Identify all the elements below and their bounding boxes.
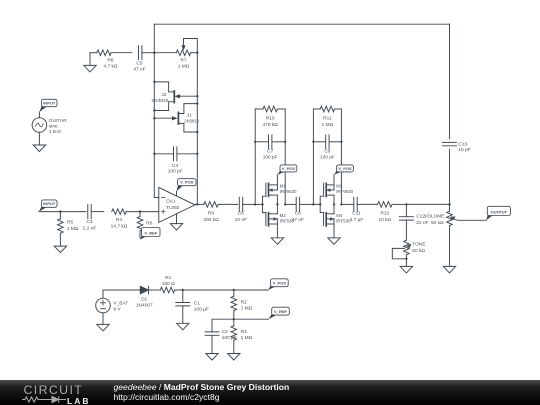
svg-text:100 Ω: 100 Ω: [162, 281, 175, 287]
resistor R10: [254, 109, 256, 204]
svg-text:TONE: TONE: [412, 242, 425, 248]
resistor R2: [233, 290, 235, 296]
svg-text:R1: R1: [165, 275, 171, 281]
svg-text:V_POS: V_POS: [282, 166, 296, 171]
svg-text:4.7 kΩ: 4.7 kΩ: [104, 63, 118, 69]
capacitor C3: [88, 205, 91, 219]
wire op-amp V+ stub: [176, 191, 178, 196]
svg-text:C8: C8: [295, 211, 301, 217]
svg-text:D1: D1: [141, 296, 147, 302]
capacitor C7: [255, 141, 268, 143]
svg-text:4.7 µF: 4.7 µF: [350, 217, 364, 223]
wire: [90, 52, 97, 54]
svg-text:C9: C9: [324, 148, 330, 154]
resistor R11: [312, 109, 314, 204]
flag INPUT (source): [39, 104, 47, 112]
footer bar: [0, 380, 540, 405]
svg-text:M1: M1: [280, 184, 287, 189]
svg-text:100 pF: 100 pF: [320, 155, 335, 161]
capacitor C8: [296, 197, 299, 211]
op-amp OA1 TL082: [159, 187, 195, 222]
svg-text:IRF9530: IRF9530: [336, 189, 353, 194]
capacitor C5: [139, 46, 142, 60]
capacitor C11: [354, 197, 357, 211]
transistor J2 2N3819: [154, 82, 173, 92]
svg-text:sine: sine: [49, 123, 58, 129]
svg-text:R10: R10: [266, 116, 275, 122]
svg-text:14.7 kΩ: 14.7 kΩ: [111, 223, 128, 229]
svg-text:TL082: TL082: [166, 205, 179, 210]
diode D1 1N4007: [140, 286, 148, 294]
transistor M1 (PMOS): [265, 183, 267, 196]
wire to R12: [357, 203, 377, 205]
transistor M4 (NMOS): [323, 213, 325, 226]
ground (R5): [54, 246, 66, 253]
wire left vertical: [153, 24, 155, 197]
source V_BAT: [96, 298, 111, 313]
node J2 drain junction: [153, 81, 155, 83]
node J1 source junction: [196, 131, 198, 133]
transistor M2 (NMOS): [265, 213, 267, 226]
svg-text:C2: C2: [222, 329, 228, 335]
wire gate bus: [255, 203, 262, 205]
svg-text:R12: R12: [380, 210, 389, 216]
wire right vertical: [196, 53, 198, 205]
capacitor C2: [212, 319, 234, 332]
capacitor C6: [239, 197, 242, 211]
svg-text:R2: R2: [241, 300, 247, 306]
capacitor C12: [405, 204, 407, 216]
ground (stage): [333, 224, 335, 238]
wire inverting input: [154, 197, 159, 199]
flag V_POS (supply): [268, 284, 277, 290]
capacitor C13: [443, 142, 457, 145]
resistor R5: [59, 212, 61, 219]
svg-text:2N3819: 2N3819: [151, 98, 168, 104]
wire stage output: [285, 203, 296, 205]
svg-text:OUTPUT: OUTPUT: [491, 209, 508, 214]
source V1 GUITAR: [38, 112, 40, 118]
node R6 junction: [139, 210, 141, 212]
resistor R9: [204, 202, 218, 208]
node junction C5/R7: [153, 52, 155, 54]
wire feedback right vertical: [340, 109, 342, 204]
svg-text:1 MΩ: 1 MΩ: [241, 335, 253, 341]
node J2 source junction: [153, 109, 155, 111]
svg-text:100 µF: 100 µF: [194, 307, 209, 313]
svg-text:V_REF: V_REF: [144, 230, 157, 235]
svg-text:100 pF: 100 pF: [263, 155, 278, 161]
capacitor C4: [154, 153, 173, 155]
node J1 gate junction: [153, 117, 155, 119]
svg-text:C13: C13: [458, 141, 467, 147]
wire feedback right vertical: [284, 109, 286, 204]
wire right feedback vertical: [449, 24, 451, 139]
svg-text:INPUT: INPUT: [43, 101, 56, 106]
node J1 drain junction: [196, 102, 198, 104]
resistor R1: [160, 287, 174, 293]
svg-text:47 nF: 47 nF: [292, 217, 304, 223]
svg-text:R6: R6: [146, 220, 152, 226]
node C4 right: [196, 153, 198, 155]
capacitor C9: [313, 141, 325, 143]
transistor M3 (PMOS): [323, 183, 325, 196]
svg-text:1 MΩ: 1 MΩ: [322, 122, 334, 128]
svg-text:V_BAT: V_BAT: [113, 300, 128, 306]
node R2 junction: [233, 289, 235, 291]
svg-text:C6: C6: [238, 211, 244, 217]
svg-text:V_POS: V_POS: [180, 180, 194, 185]
svg-text:R11: R11: [323, 116, 332, 122]
resistor R8: [97, 50, 111, 56]
wire: [39, 211, 61, 213]
ground (op-amp V-): [176, 214, 178, 224]
resistor R3: [233, 319, 235, 326]
node C1 junction: [182, 289, 184, 291]
flag V_POS (op-amp): [177, 183, 184, 191]
node feedback right: [340, 141, 342, 143]
svg-text:C7: C7: [267, 148, 273, 154]
flag V_REF (supply): [269, 312, 278, 319]
svg-text:R7: R7: [180, 58, 186, 64]
ground (tone): [400, 266, 412, 273]
ground (input bias): [89, 53, 91, 66]
svg-text:R8: R8: [107, 58, 113, 64]
flag V_REF (R6): [140, 234, 148, 240]
svg-text:M4: M4: [336, 213, 343, 218]
ground (C2): [206, 354, 218, 361]
node feedback left: [312, 141, 314, 143]
svg-text:2N3819: 2N3819: [184, 118, 199, 123]
node junction R7 right: [196, 52, 198, 54]
svg-text:22 nF: 22 nF: [416, 220, 428, 226]
ground (C1): [177, 323, 189, 330]
svg-text:15 pF: 15 pF: [458, 147, 470, 153]
potentiometer TONE: [404, 240, 410, 254]
svg-text:10 nF: 10 nF: [235, 217, 247, 223]
flag INPUT (amp input): [39, 205, 48, 212]
node stage input junction: [312, 203, 314, 205]
flag V_POS (stage M3): [334, 169, 343, 175]
potentiometer VOLUME: [449, 204, 451, 211]
node drain-feedback junction: [284, 203, 286, 205]
svg-text:M3: M3: [336, 184, 343, 189]
svg-text:C3: C3: [86, 219, 92, 225]
svg-text:1 MΩ: 1 MΩ: [67, 226, 79, 232]
node C4 left: [153, 153, 155, 155]
node V_REF junction: [233, 318, 235, 320]
ground (guitar): [38, 132, 40, 145]
svg-text:V_POS: V_POS: [273, 281, 287, 286]
capacitor C1: [182, 290, 184, 303]
svg-text:10 kΩ: 10 kΩ: [378, 217, 391, 223]
svg-text:V_POS: V_POS: [338, 166, 352, 171]
svg-text:1N4007: 1N4007: [136, 302, 153, 308]
svg-text:C11: C11: [352, 211, 361, 217]
svg-text:47 nF: 47 nF: [133, 66, 145, 72]
CircuitLab logo: [24, 385, 104, 396]
flag V_POS (stage M1): [277, 169, 286, 175]
svg-text:100 pF: 100 pF: [168, 169, 183, 175]
svg-text:M2: M2: [280, 213, 287, 218]
transistor J1 2N3819: [154, 117, 174, 119]
svg-text:200 kΩ: 200 kΩ: [203, 217, 219, 223]
svg-text:IRF9530: IRF9530: [280, 189, 297, 194]
svg-text:R9: R9: [208, 210, 214, 216]
flag OUTPUT: [486, 213, 493, 221]
wire stage output: [341, 203, 353, 205]
svg-text:V_REF: V_REF: [274, 309, 287, 314]
svg-text:R3: R3: [241, 329, 247, 335]
svg-text:INPUT: INPUT: [43, 201, 56, 206]
svg-text:C1: C1: [194, 300, 200, 306]
wire gate bus: [313, 203, 320, 205]
ground (R3): [228, 354, 240, 361]
wire top feedback: [154, 23, 449, 25]
ground (battery): [102, 313, 104, 325]
svg-text:9 V: 9 V: [113, 306, 121, 312]
resistor R6: [139, 212, 141, 217]
node feedback left: [254, 141, 256, 143]
node volume top: [448, 203, 450, 205]
wire drain junction: [276, 195, 278, 214]
node C12 junction: [405, 203, 407, 205]
svg-text:1 kHz: 1 kHz: [49, 129, 62, 135]
svg-text:GUITAR: GUITAR: [49, 118, 67, 124]
svg-text:R4: R4: [116, 217, 122, 223]
resistor R12: [378, 202, 392, 208]
svg-text:C4: C4: [172, 163, 178, 169]
node op-amp output: [196, 203, 198, 205]
node stage input junction: [254, 203, 256, 205]
svg-text:2.2 nF: 2.2 nF: [83, 225, 97, 231]
node feedback right: [284, 141, 286, 143]
svg-text:C5: C5: [136, 61, 142, 67]
ground (volume): [443, 266, 455, 273]
ground (stage): [276, 224, 278, 238]
node J2 gate junction: [196, 95, 198, 97]
wire drain junction: [333, 195, 335, 214]
svg-text:R5: R5: [67, 219, 73, 225]
svg-text:470 kΩ: 470 kΩ: [263, 122, 279, 128]
wire: [142, 52, 154, 54]
wire interstage: [300, 203, 314, 205]
potentiometer R7: [176, 50, 190, 56]
svg-text:50 kΩ: 50 kΩ: [431, 220, 444, 226]
node R5 junction: [59, 210, 61, 212]
node drain-feedback junction: [340, 203, 342, 205]
svg-text:1 MΩ: 1 MΩ: [241, 306, 253, 312]
resistor R4: [112, 209, 126, 215]
svg-text:J2: J2: [161, 92, 166, 98]
svg-text:50 kΩ: 50 kΩ: [412, 248, 425, 254]
svg-text:OA1: OA1: [166, 199, 176, 204]
svg-text:1 MΩ: 1 MΩ: [178, 63, 190, 69]
svg-text:VOLUME: VOLUME: [424, 214, 444, 220]
